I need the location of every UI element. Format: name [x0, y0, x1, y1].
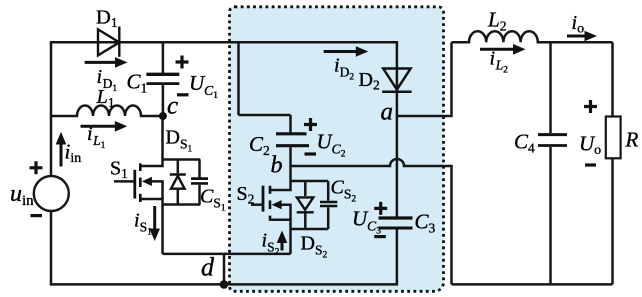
svg-text:b: b — [271, 153, 283, 179]
svg-text:c: c — [167, 93, 178, 120]
svg-text:d: d — [201, 253, 215, 282]
svg-text:a: a — [381, 99, 394, 126]
svg-text:R: R — [625, 128, 639, 152]
